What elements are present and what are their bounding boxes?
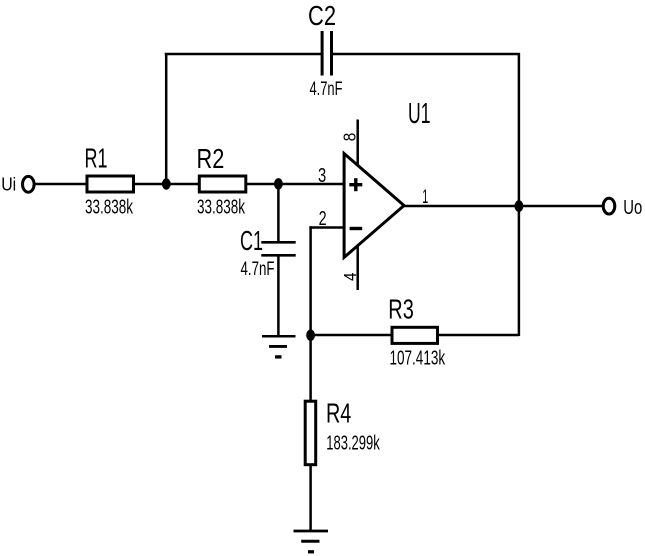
op-amp U1 pin 4 stub	[356, 245, 359, 290]
svg-text:R2: R2	[197, 143, 225, 174]
op-amp U1 minus symbol	[350, 227, 363, 230]
svg-text:8: 8	[340, 133, 360, 142]
wire C2 left lead	[165, 53, 321, 56]
svg-text:R4: R4	[326, 398, 351, 429]
resistor R1	[87, 176, 134, 192]
svg-text:C2: C2	[308, 0, 336, 31]
capacitor C1 plates	[261, 242, 295, 255]
svg-text:Ui: Ui	[1, 174, 16, 194]
ground below R4	[294, 531, 329, 552]
terminal Ui circle	[23, 176, 35, 192]
op-amp U1 plus symbol	[349, 178, 362, 191]
wire R1 to R2 through node A	[134, 183, 200, 186]
op-amp U1 pin 8 stub	[356, 120, 359, 167]
ground below C1	[262, 336, 296, 357]
wire node B down to C1	[277, 184, 280, 243]
wire op-amp output pin 1 to Uo	[404, 205, 603, 208]
wire inverting node vertical pin2 to R4	[309, 226, 312, 400]
svg-text:183.299k: 183.299k	[326, 432, 380, 454]
wire C1 to ground	[277, 255, 280, 336]
resistor R3	[392, 327, 438, 343]
resistor R2	[199, 176, 246, 192]
svg-text:C1: C1	[240, 225, 263, 256]
svg-text:R3: R3	[388, 294, 414, 325]
node A junction dot (R1/R2/C2)	[162, 178, 171, 189]
svg-text:33.838k: 33.838k	[85, 197, 134, 219]
wire C2 right lead to output column	[332, 53, 520, 56]
svg-text:Uo: Uo	[623, 197, 642, 219]
svg-text:3: 3	[318, 164, 326, 187]
resistor R4	[305, 401, 316, 465]
wire node A up to C2	[165, 53, 168, 184]
svg-text:4.7nF: 4.7nF	[241, 258, 275, 280]
wire input Ui to R1	[36, 183, 88, 186]
svg-text:2: 2	[319, 207, 327, 230]
node output junction dot	[515, 200, 524, 212]
svg-text:4.7nF: 4.7nF	[310, 78, 343, 100]
svg-text:33.838k: 33.838k	[197, 197, 246, 219]
wire R2 to op-amp pin 3 through node B	[246, 183, 343, 186]
svg-text:107.413k: 107.413k	[390, 348, 446, 370]
node C junction dot (R3/R4/pin2)	[306, 330, 315, 341]
wire node C to R3 and output column	[311, 334, 519, 337]
svg-text:1: 1	[422, 187, 428, 208]
wire output column vertical C2 to R3	[518, 53, 521, 336]
op-amp U1 triangle	[344, 154, 404, 258]
wire R4 to ground	[309, 465, 312, 531]
wire op-amp pin 2 horizontal	[309, 226, 343, 229]
svg-text:R1: R1	[85, 143, 108, 174]
terminal Uo circle	[603, 198, 615, 214]
svg-text:U1: U1	[408, 98, 431, 130]
svg-text:4: 4	[340, 272, 360, 281]
capacitor C2 plates	[322, 31, 331, 76]
node B junction dot (R2/C1/pin3)	[274, 178, 283, 189]
